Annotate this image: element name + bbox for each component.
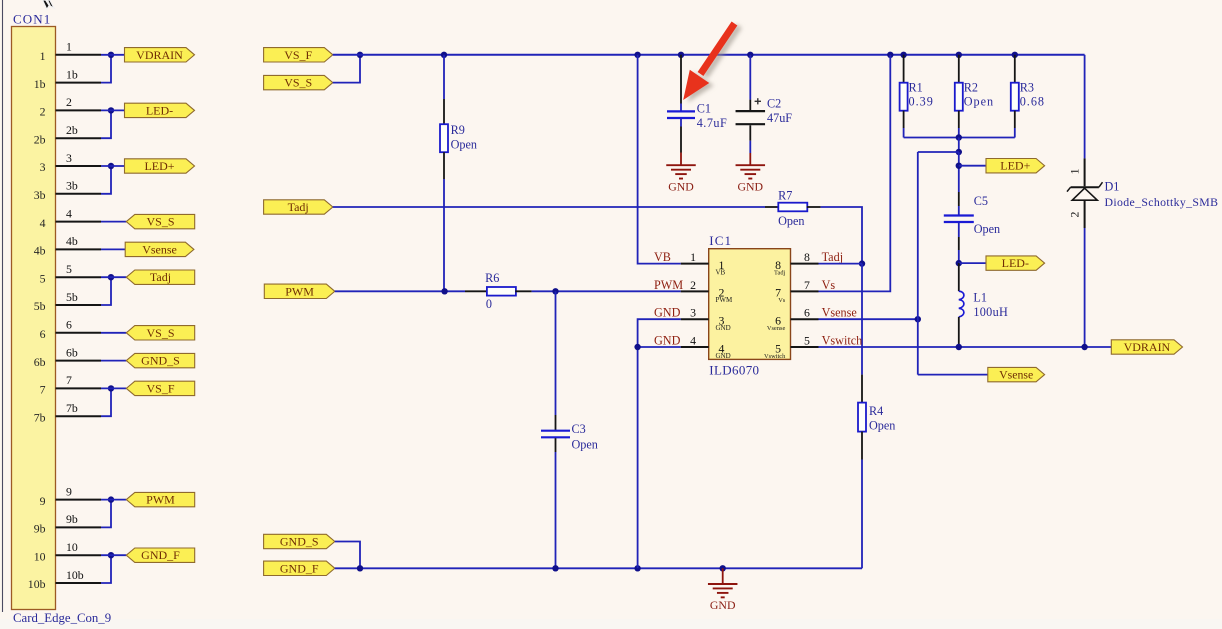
CON1 pin 4b [34,234,101,257]
CON1 pin 7b [34,401,101,424]
wire branch to Vsense vertical [918,151,959,153]
resistor R2 [955,83,963,111]
svg-text:LED+: LED+ [1000,159,1030,173]
wire CON1 VDRAIN net [101,54,125,56]
junction CON1 pins 1/1b [108,52,114,58]
wire R4 to GND_F line [861,432,863,569]
wire IC pin 7 Vs up to bus [819,55,891,292]
wire bus to R3 [1014,55,1016,83]
svg-text:Vsense: Vsense [822,306,857,320]
wire CON1 GND_S net stub [101,360,126,362]
svg-text:6b: 6b [66,345,78,359]
resistor R3 [1011,83,1019,111]
wire VS_F top bus [333,54,1085,56]
wire GND_F net [335,567,862,569]
junction CON1 pins 3/3b [108,163,114,169]
junction IC pin4 / GND vertical [634,344,640,350]
R1 designator [909,81,923,95]
svg-text:7b: 7b [34,410,46,424]
junction bus / R1 [900,52,906,58]
IC1 pin 6 (Vsense) [767,306,857,332]
wire L1 to Vswitch [958,317,960,347]
C5 value Open [974,222,1000,236]
R4 value Open [869,419,895,433]
wire C5 to LED- [958,223,960,263]
op-amp / IC U1: IC1 ILD6070 body [709,249,791,360]
wire GND_S to GND_F line [335,542,360,569]
junction Tadj / IC pin 8 [859,260,865,266]
svg-text:3: 3 [66,151,72,165]
svg-text:C3: C3 [572,422,586,436]
svg-text:Tadj: Tadj [150,270,171,284]
D1 pin number 1 [1067,168,1081,174]
junction LED- [956,260,962,266]
svg-text:5: 5 [66,262,72,276]
junction PWM / R9 [441,288,447,294]
svg-text:5b: 5b [34,299,46,313]
svg-text:3: 3 [40,160,46,174]
svg-text:Card_Edge_Con_9: Card_Edge_Con_9 [13,611,111,625]
IC1 pin 4 (GND) [654,333,731,359]
svg-text:4b: 4b [66,234,78,248]
wire IC pin 3 GND down [638,319,681,568]
junction LED+ [956,163,962,169]
inductor L1 [959,291,964,317]
wire IC pin 4 GND join [638,346,681,348]
svg-text:10b: 10b [66,568,84,582]
C5 designator [974,194,988,208]
svg-text:Tadj: Tadj [822,250,843,264]
svg-text:Tadj: Tadj [288,200,309,214]
wire Vsense vertical [917,152,919,375]
CON1 pin 6 [40,318,101,341]
wire CON1 Vsense net [101,248,125,250]
CON1 pin 9b [34,512,101,535]
capacitor C1 [667,111,695,118]
IC1 part name ILD6070 [709,363,759,378]
svg-text:5: 5 [804,333,810,347]
svg-text:C1: C1 [697,101,711,115]
svg-text:R6: R6 [485,271,499,285]
wire bus corner down to D1 [1084,55,1086,159]
svg-text:4: 4 [66,206,72,220]
resistor R1 [900,83,908,111]
junction GND_F / GND_S [357,565,363,571]
C1 designator [697,101,711,115]
CON1 pin 1 [40,40,101,63]
svg-text:9: 9 [66,484,72,498]
svg-text:7: 7 [66,373,72,387]
svg-text:VB: VB [716,268,726,276]
port VS_S (joins bus) [264,75,333,89]
R6 designator [485,271,499,285]
IC1 pin 5 (Vswitch) [764,333,862,359]
port VS_F (CON1 pin 7) [126,381,194,395]
IC1 pin 8 (Tadj) [774,250,843,276]
mouse cursor [43,0,55,9]
svg-text:Open: Open [778,214,804,228]
svg-text:4.7uF: 4.7uF [697,116,728,130]
svg-text:GND: GND [716,324,731,332]
resistor R7 [778,203,807,212]
wire Tadj net [333,206,779,208]
svg-text:3b: 3b [34,188,46,202]
svg-text:GND: GND [668,179,694,193]
port LED+ [986,159,1045,173]
junction CON1 pins 9/9b [108,496,114,502]
port LED+ (CON1 pin 3) [125,159,195,173]
svg-text:Vswitch: Vswitch [764,353,786,360]
svg-text:9b: 9b [66,512,78,526]
svg-text:VS_S: VS_S [146,215,174,229]
diode D1 symbol (Schottky) [1067,182,1103,200]
wire R1-R2-R3 bottom rail [904,137,1015,139]
svg-text:GND_S: GND_S [280,535,319,549]
svg-text:2: 2 [40,105,46,119]
capacitor C2 (polarized) [736,111,766,124]
svg-text:8: 8 [804,250,810,264]
CON1 pin 9 [40,484,101,507]
svg-text:R3: R3 [1020,81,1034,95]
wire column to LED+ [958,152,960,192]
svg-text:Open: Open [869,419,895,433]
D1 pin number 2 [1067,211,1081,217]
svg-text:2: 2 [66,95,72,109]
svg-text:Vswitch: Vswitch [822,333,863,347]
svg-text:R2: R2 [964,81,978,95]
wire PWM to C3 [555,291,557,430]
svg-text:10: 10 [34,549,46,563]
R9 designator [451,123,465,137]
svg-text:GND: GND [716,352,731,360]
junction Vswitch / D1 [1081,344,1087,350]
svg-text:1: 1 [1067,168,1081,174]
wire R9 to PWM net [443,152,445,291]
port Tadj (CON1 pin 5) [126,270,194,284]
port Vsense (CON1 pin 4b) [125,242,194,256]
junction bus / R3 [1012,52,1018,58]
svg-text:Open: Open [451,138,477,152]
wire Tadj vertical to R4 [861,264,863,403]
svg-text:Vsense: Vsense [999,368,1033,382]
svg-text:2: 2 [690,278,696,292]
resistor R9 [440,124,448,152]
wire column into C5 [958,192,960,215]
CON1 pin 3 [40,151,101,174]
wire CON1 VS_S net stub [101,221,126,223]
wire CON1 GND_F net stub [101,554,126,556]
svg-text:PWM: PWM [654,278,683,292]
CON1 pin 1b [34,67,101,90]
wire CON1 pin 3b join to pin 3 [101,166,111,194]
L1 designator [973,291,987,305]
CON1 pin 10b [28,568,101,591]
svg-text:L1: L1 [973,291,987,305]
junction GND_F / IC GND [634,565,640,571]
svg-text:Vsense: Vsense [767,325,786,332]
port Tadj (middle) [264,200,333,214]
wire CON1 pin 10b join to pin 10 [101,555,111,583]
wire CON1 Tadj net stub [101,276,126,278]
CON1 pin 10 [34,540,101,563]
wire LED+ to port [959,165,986,167]
svg-text:CON1: CON1 [13,12,51,27]
connector CON1 designator [13,12,51,27]
wire rail down to Vsense branch [958,138,960,153]
ground GND under C1 [666,153,696,194]
svg-text:R9: R9 [451,123,465,137]
svg-text:Open: Open [974,222,1000,236]
svg-text:GND: GND [738,179,764,193]
junction VS_S/VS_F bus [357,52,363,58]
junction Vsense branch [956,149,962,155]
svg-text:9b: 9b [34,522,46,536]
port PWM (middle) [264,284,335,298]
svg-text:PWM: PWM [285,284,314,298]
wire LED- to port [959,262,986,264]
wire C1 to GND [680,119,682,153]
junction bus / C1 [678,52,684,58]
junction CON1 pins 2/2b [108,107,114,113]
CON1 pin 4 [40,206,101,229]
wire R7 to Tadj/R4 vertical [807,207,862,264]
R7 value Open [778,214,804,228]
C3 designator [572,422,586,436]
svg-text:1b: 1b [66,67,78,81]
IC1 pin 1 (VB) [654,250,726,276]
port PWM (CON1 pin 9) [126,492,194,506]
wire VS_S to bus [333,55,360,83]
port Vsense (right) [988,367,1045,381]
svg-text:4: 4 [40,216,46,230]
R7 designator [778,188,792,202]
svg-text:4: 4 [690,333,696,347]
svg-text:D1: D1 [1105,180,1120,194]
port GND_S (bottom) [264,534,335,548]
R4 designator [869,404,883,418]
wire bus to R2 [958,55,960,83]
CON1 pin 2 [40,95,101,118]
svg-text:VS_S: VS_S [146,326,174,340]
svg-text:PWM: PWM [146,493,175,507]
R3 designator [1020,81,1034,95]
svg-text:LED-: LED- [146,103,173,117]
svg-text:6: 6 [40,327,46,341]
svg-text:GND: GND [654,306,681,320]
svg-text:1: 1 [66,40,72,54]
wire IC pin 5 Vswitch to VDRAIN [819,346,1112,348]
svg-text:Vsense: Vsense [142,242,177,256]
junction GND_F / C3 [552,565,558,571]
wire CON1 pin 5b join to pin 5 [101,277,111,305]
CON1 pin 5 [40,262,101,285]
svg-text:VS_F: VS_F [146,381,174,395]
C2 plus sign [755,98,761,104]
svg-text:100uH: 100uH [973,305,1008,319]
svg-text:VB: VB [654,250,671,264]
ground GND under C2 [736,153,766,193]
IC1 pin 2 (PWM) [654,278,733,304]
port LED- (CON1 pin 2) [125,103,195,117]
svg-text:2b: 2b [66,123,78,137]
svg-text:47uF: 47uF [767,111,792,125]
svg-text:6b: 6b [34,355,46,369]
port VS_S (CON1 pin 6) [126,326,194,340]
junction Vsense vertical / pin6 [915,316,921,322]
R3 value 0.68 [1020,95,1045,109]
junction Vswitch / L1 [956,344,962,350]
wire C2 to GND [749,125,751,153]
svg-text:0: 0 [486,297,492,311]
svg-text:6: 6 [804,306,810,320]
connector CON1 body [12,27,56,610]
CON1 pin 5b [34,290,101,313]
CON1 pin 3b [34,179,101,202]
wire bus to C2 [749,55,751,110]
wire CON1 VS_F net stub [101,387,126,389]
R9 value Open [451,138,477,152]
capacitor C3 [541,431,570,438]
svg-text:Vs: Vs [822,278,836,292]
svg-text:C2: C2 [767,97,781,111]
wire R1 bottom [903,111,905,138]
junction bus / R2 [956,52,962,58]
wire R3 bottom [1014,111,1016,138]
svg-text:VDRAIN: VDRAIN [1124,340,1171,354]
svg-text:7b: 7b [66,401,78,415]
svg-text:7: 7 [40,383,46,397]
svg-text:2: 2 [1067,211,1081,217]
resistor R4 [858,403,866,432]
junction CON1 pins 5/5b [108,274,114,280]
svg-text:Open: Open [964,95,994,109]
svg-text:PWM: PWM [716,296,734,304]
svg-text:ILD6070: ILD6070 [709,363,759,378]
wire IC pin 1 VB up to bus [638,55,681,264]
C2 value 47uF [767,111,792,125]
D1 designator [1105,180,1120,194]
junction CON1 pins 10/10b [108,552,114,558]
ground GND bottom [708,568,738,612]
svg-text:1: 1 [690,250,696,264]
port GND_F (CON1 pin 10) [126,548,194,562]
svg-text:C5: C5 [974,194,988,208]
L1 value 100uH [973,305,1008,319]
port VDRAIN (CON1 pin 1) [125,48,195,62]
svg-text:R1: R1 [909,81,923,95]
svg-text:VS_F: VS_F [284,48,312,62]
port GND_S (CON1 pin 6b) [126,353,194,367]
wire CON1 pin 2b join to pin 2 [101,110,111,138]
CON1 pin 7 [40,373,101,396]
wire PWM net [335,290,488,292]
connector CON1 part name Card_Edge_Con_9 [13,611,111,625]
svg-text:GND_S: GND_S [141,354,180,368]
svg-text:R4: R4 [869,404,883,418]
svg-text:9: 9 [40,494,46,508]
R6 value 0 [486,297,492,311]
svg-text:Vs: Vs [778,297,786,304]
svg-text:GND_F: GND_F [280,561,319,575]
annotation red arrow pointing at C1 [683,24,734,101]
svg-text:3b: 3b [66,179,78,193]
svg-text:0.68: 0.68 [1020,95,1045,109]
CON1 pin 6b [34,345,101,368]
D1 part name [1105,195,1219,209]
wire IC pin 8 Tadj [819,263,863,265]
svg-text:LED+: LED+ [144,159,174,173]
junction CON1 pins 7/7b [108,385,114,391]
wire CON1 VS_S net stub [101,332,126,334]
C1 value 4.7uF [697,116,728,130]
R2 value Open [964,95,994,109]
junction GND_F / ground symbol [720,565,726,571]
svg-text:2b: 2b [34,132,46,146]
wire CON1 LED- net [101,109,125,111]
svg-text:R7: R7 [778,188,792,202]
diode D1 pin 1 (cathode) [1084,158,1086,186]
port VS_F (top bus) [264,48,333,62]
svg-text:VS_S: VS_S [284,76,312,90]
svg-text:GND: GND [654,333,681,347]
wire bus to C1 [680,55,682,111]
svg-text:10: 10 [66,540,78,554]
wire CON1 PWM net stub [101,499,126,501]
junction bus / R9 [441,52,447,58]
resistor R6 [487,287,516,296]
svg-text:4b: 4b [34,244,46,258]
wire CON1 LED+ net [101,165,125,167]
svg-text:Tadj: Tadj [774,269,785,276]
wire CON1 pin 7b join to pin 7 [101,388,111,416]
wire CON1 pin 9b join to pin 9 [101,500,111,528]
junction bus / Vs [887,52,893,58]
wire R6 to IC pin 2 [515,290,680,292]
wire C3 to GND_F line [555,438,557,568]
wire bus to R1 [903,55,905,83]
port LED- [986,256,1045,270]
svg-text:0.39: 0.39 [909,95,934,109]
port VS_S (CON1 pin 4) [126,214,194,228]
capacitor C5 [944,216,974,223]
svg-text:IC1: IC1 [709,233,732,248]
svg-text:6: 6 [66,318,72,332]
wire R2 bottom [958,111,960,138]
svg-text:GND_F: GND_F [141,548,180,562]
junction bus / VB [634,52,640,58]
wire D1 anode down to Vswitch [1084,200,1086,347]
R2 designator [964,81,978,95]
IC1 pin 7 (Vs) [775,278,835,304]
svg-text:5: 5 [40,271,46,285]
R1 value 0.39 [909,95,934,109]
C2 designator [767,97,781,111]
CON1 pin 2b [34,123,101,146]
svg-text:LED-: LED- [1002,256,1029,270]
svg-text:7: 7 [804,278,810,292]
svg-text:1b: 1b [34,77,46,91]
IC1 pin 3 (GND) [654,306,731,332]
svg-text:10b: 10b [28,577,46,591]
wire Vsense to port [918,374,988,376]
wire IC pin 6 Vsense [819,318,918,320]
wire LED- to L1 [958,263,960,291]
wire CON1 pin 1b join to pin 1 [101,55,111,83]
svg-text:Open: Open [572,438,598,452]
junction PWM / C3 [552,288,558,294]
svg-text:1: 1 [40,49,46,63]
port VDRAIN (right) [1111,340,1182,354]
